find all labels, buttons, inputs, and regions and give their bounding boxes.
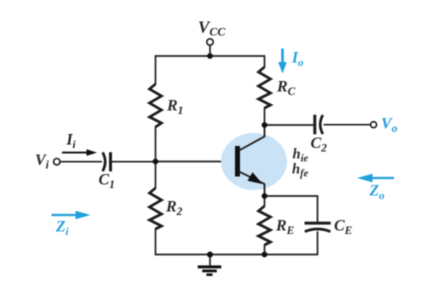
capacitor CE [305,223,331,232]
wire C2 to Vo terminal [324,124,370,126]
wire collector node to C2 [265,124,314,126]
node collector [262,122,268,128]
node RE bottom [262,252,268,258]
transistor Q1 symbol [238,125,265,196]
terminal Vcc [207,39,213,45]
svg-text:Vo: Vo [381,116,398,136]
wire CE bottom stub [317,232,319,255]
svg-text:RC: RC [276,79,296,99]
wire emitter node to CE branch [265,195,318,197]
node base junction [153,159,159,165]
wire top rail [156,55,265,57]
resistor RE [259,206,271,245]
wire C1 to base node [112,161,156,163]
wire emitter node to RE [264,196,266,206]
wire R2 to bottom rail [155,229,157,255]
wire R1 to base node [155,127,157,162]
svg-text:Zi: Zi [55,219,69,239]
svg-text:Io: Io [291,50,304,70]
wire left column top [155,56,157,84]
arrow Ii [62,149,97,156]
capacitor C1 [103,152,111,171]
svg-text:C2: C2 [311,135,328,155]
resistor R1 [150,84,162,127]
wire ground stub [209,255,211,267]
terminal Vo [371,122,377,128]
svg-text:C1: C1 [99,172,115,192]
wire Vi terminal to C1 [60,161,101,163]
arrow Io [278,49,287,74]
wire base node to R2 [155,162,157,189]
arrow Zo [357,174,394,183]
wire RC to collector node [264,108,266,125]
svg-text:Zo: Zo [369,183,385,203]
ground [198,267,222,275]
resistor R2 [150,188,162,229]
wire right column top [264,56,266,67]
wire CE top stub [317,196,319,223]
wire bottom rail [156,254,318,256]
arrow Zi [52,211,91,220]
wire base node to transistor [156,161,236,163]
transistor Q1 highlight circle [221,133,287,190]
wire Vcc stub [209,45,211,56]
svg-text:Vi: Vi [35,152,50,172]
capacitor C2 [315,115,323,135]
svg-text:RE: RE [275,218,295,238]
node emitter [262,193,268,199]
node ground junction [207,252,213,258]
wire RE to bottom rail [264,245,266,255]
resistor RC [259,67,271,108]
terminal Vi [54,159,60,165]
svg-text:VCC: VCC [198,18,226,39]
node Vcc junction [207,53,213,59]
svg-text:Ii: Ii [66,132,77,152]
svg-text:R1: R1 [166,98,183,118]
svg-text:R2: R2 [165,199,183,219]
svg-text:CE: CE [334,218,353,238]
